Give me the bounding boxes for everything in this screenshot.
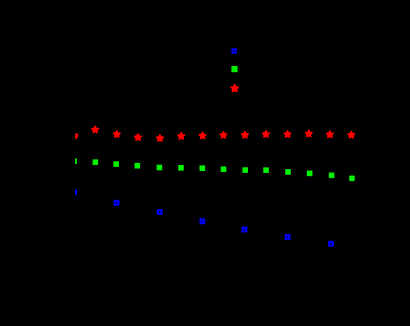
blue series point 5: [243, 228, 247, 232]
legend marker blue hollow square: [232, 49, 235, 52]
clip notch on red point 1: [75, 135, 78, 137]
green series point 2: [93, 159, 99, 165]
red series point 12: [305, 130, 312, 136]
green series point 12: [307, 171, 313, 177]
red series point 11: [284, 131, 291, 137]
red series point 5: [157, 135, 164, 141]
green series point 10: [263, 167, 269, 173]
blue series point 6: [286, 235, 290, 239]
blue series point 2: [115, 201, 119, 205]
green series point 8: [221, 166, 227, 172]
legend marker red star: [231, 85, 238, 92]
green series point 13: [329, 173, 335, 179]
green series point 3: [113, 161, 119, 167]
legend marker green square: [231, 66, 237, 72]
blue series point 4: [201, 220, 205, 224]
green series point 11: [285, 169, 291, 175]
green series point 1: [71, 158, 77, 164]
red series point 10: [263, 131, 270, 137]
red series point 2: [92, 126, 99, 132]
green series point 6: [178, 165, 184, 171]
red series point 13: [327, 131, 334, 137]
red series point 4: [135, 134, 142, 140]
red series point 7: [199, 132, 206, 138]
red series point 8: [220, 132, 227, 138]
green series point 4: [135, 163, 141, 169]
green series point 14: [349, 175, 355, 181]
blue series point 7: [329, 242, 333, 246]
blue series point 3: [158, 210, 162, 214]
red series point 3: [113, 131, 120, 137]
green square data series: [71, 158, 355, 181]
green series point 7: [200, 165, 206, 171]
red series point 6: [178, 133, 185, 139]
red series point 1: [71, 132, 78, 138]
green series point 9: [242, 167, 248, 173]
green series point 5: [157, 165, 163, 171]
blue series point 1: [72, 191, 76, 195]
red series point 14: [348, 131, 355, 137]
red star data series: [71, 126, 355, 141]
blue hollow square data series: [72, 191, 333, 246]
red series point 9: [242, 132, 249, 138]
